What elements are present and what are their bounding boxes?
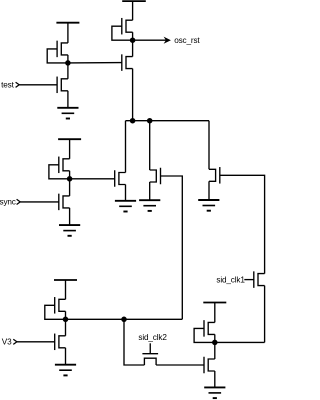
svg-text:sid_clk1: sid_clk1 <box>216 275 245 284</box>
svg-text:sync: sync <box>0 198 16 207</box>
svg-text:V3: V3 <box>2 338 12 347</box>
svg-text:osc_rst: osc_rst <box>174 36 200 45</box>
svg-text:test: test <box>1 81 14 90</box>
svg-text:sid_clk2: sid_clk2 <box>138 333 167 342</box>
